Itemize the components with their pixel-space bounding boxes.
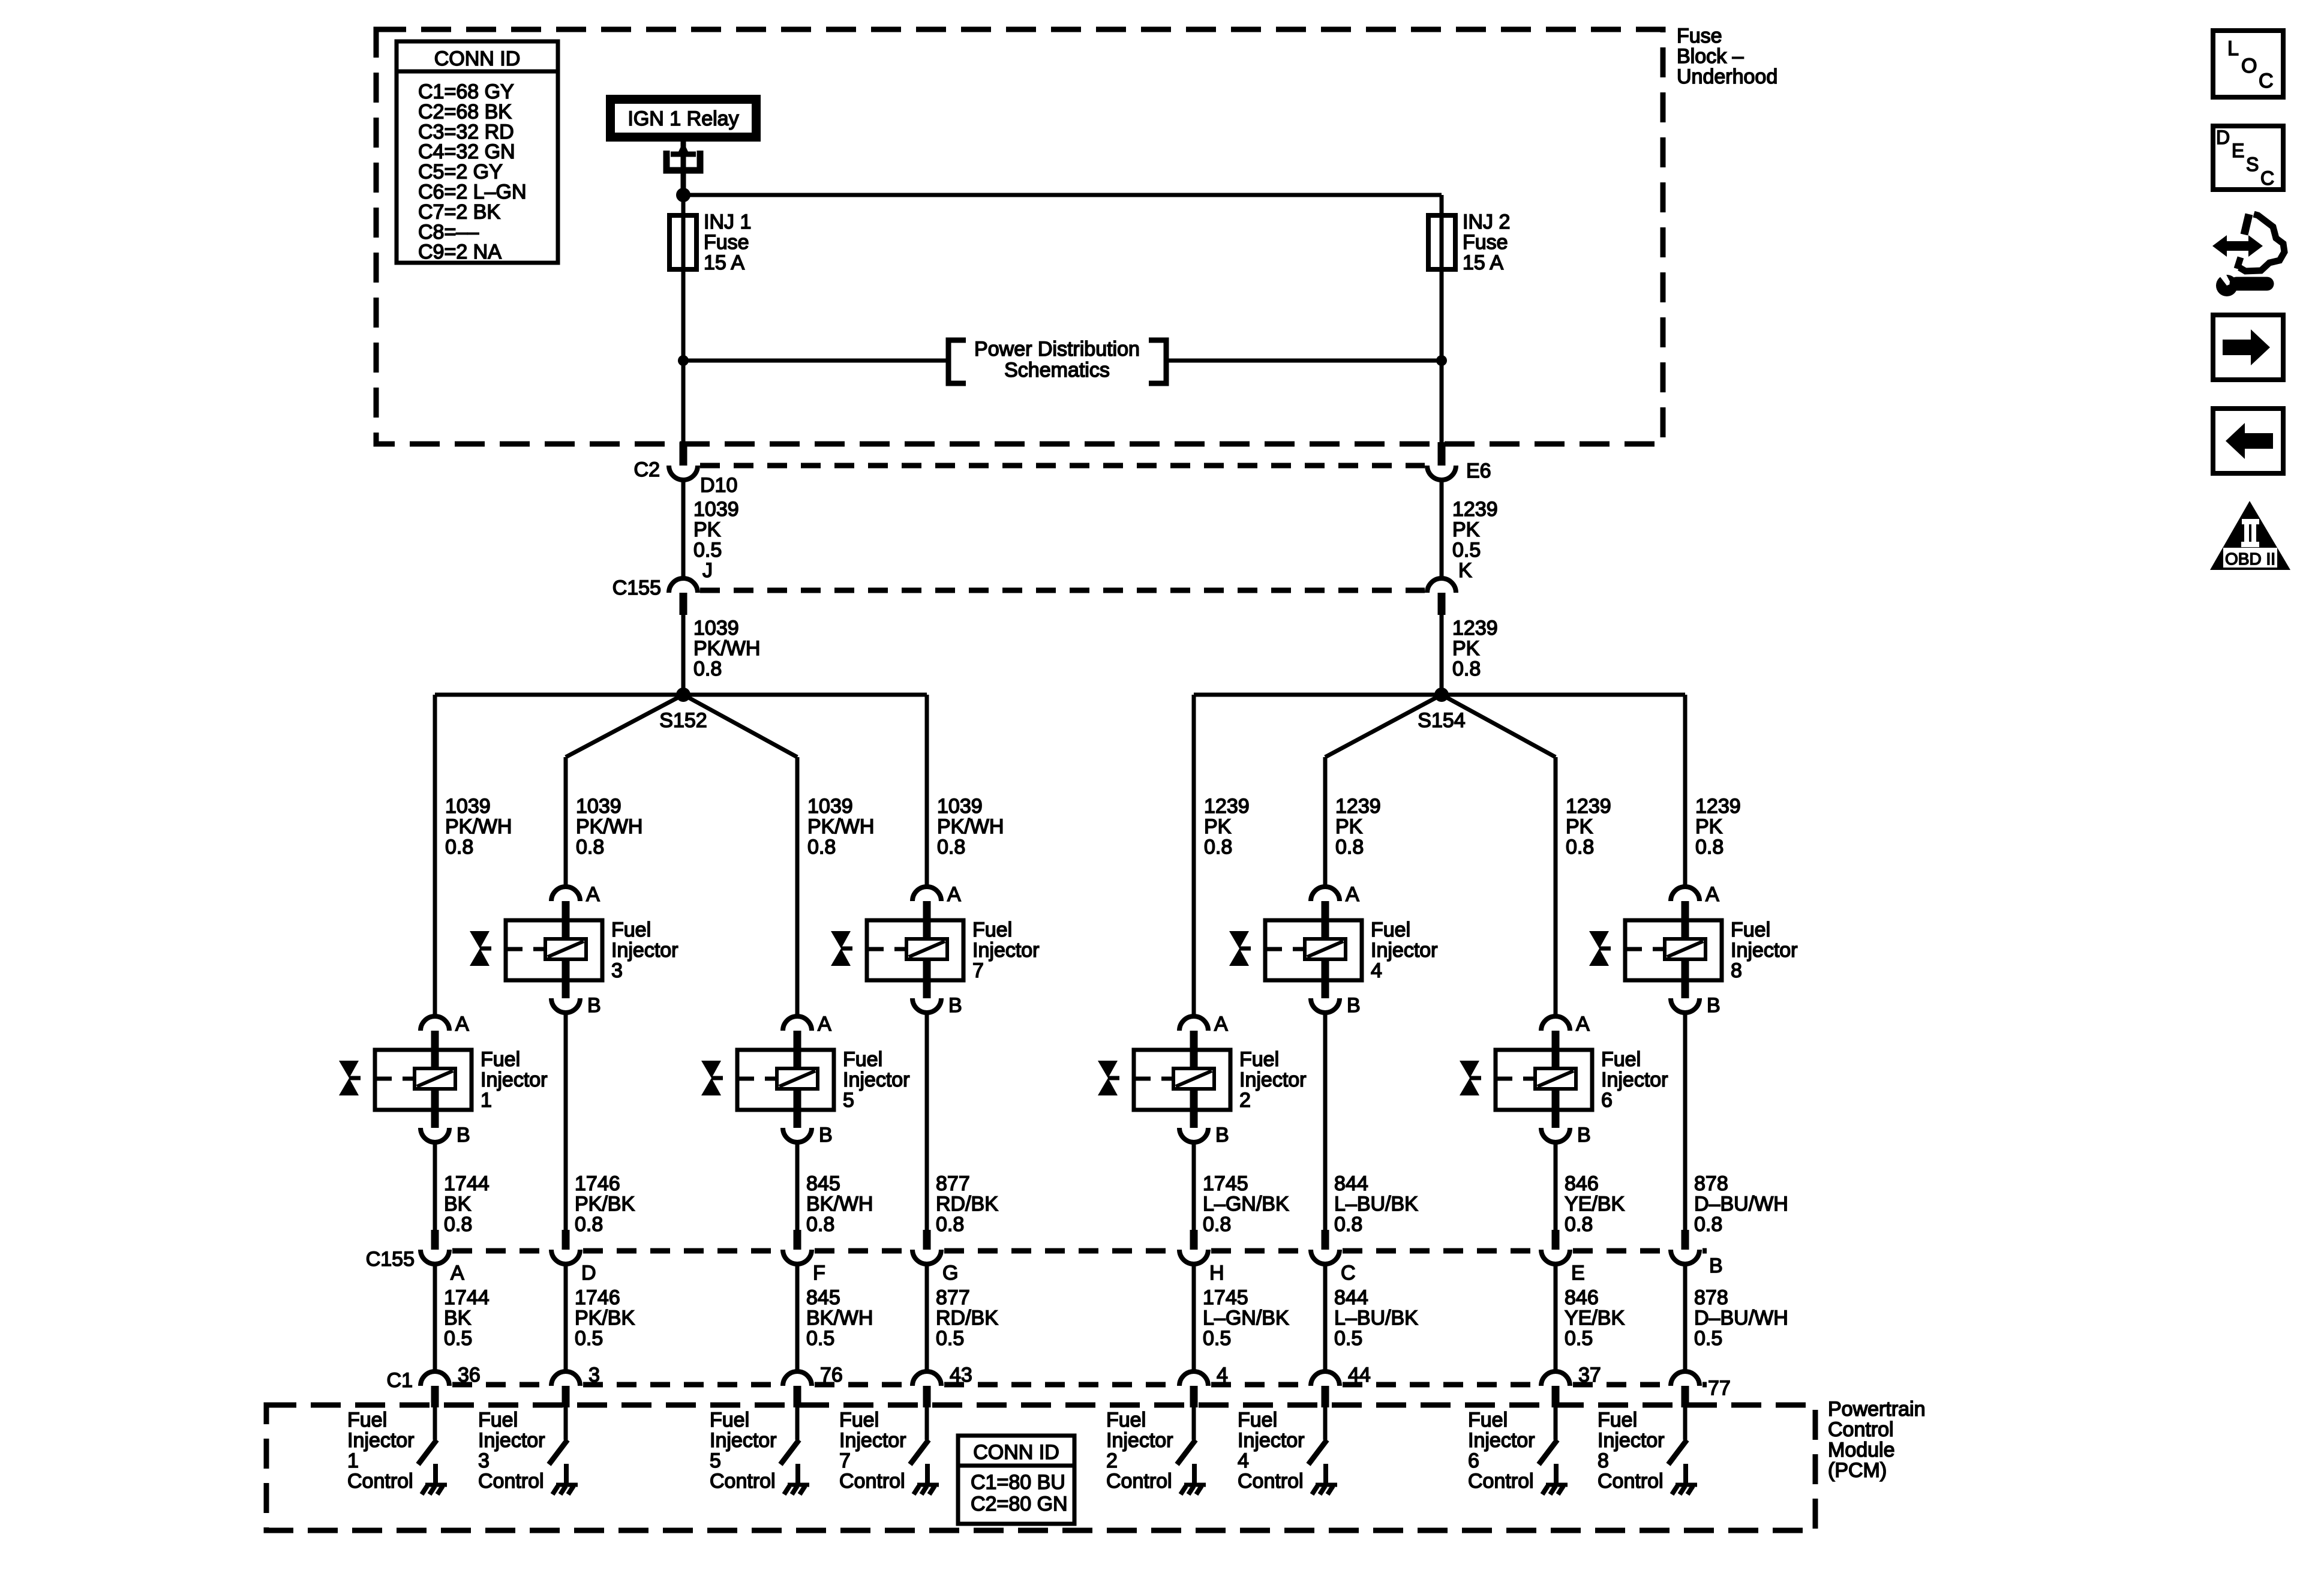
svg-text:D10: D10 [700,474,737,497]
svg-text:A: A [1706,883,1719,906]
svg-text:Control: Control [1106,1470,1172,1493]
wire: power distribution schematics tie line [683,359,1442,363]
svg-text:H: H [1209,1262,1224,1284]
svg-text:3: 3 [478,1449,490,1472]
connector C155 pin E [1541,1230,1585,1284]
PCM driver switch: fuel injector 6 control [1539,1407,1557,1464]
svg-text:C9=2 NA: C9=2 NA [418,241,502,263]
svg-text:Fuse: Fuse [1677,25,1722,47]
fuel injector 2 [1098,1013,1307,1146]
svg-text:BK: BK [444,1307,472,1329]
svg-text:A: A [586,883,600,906]
svg-text:Control: Control [1828,1418,1894,1441]
svg-text:1: 1 [347,1449,359,1472]
svg-text:0.5: 0.5 [693,539,722,562]
svg-text:YE/BK: YE/BK [1565,1307,1625,1329]
wire 1039 PK 0.5 [683,480,739,578]
svg-text:RD/BK: RD/BK [936,1307,998,1329]
label pin J [702,559,713,582]
svg-text:A: A [1346,883,1359,906]
connector C155 pin H [1179,1230,1224,1284]
svg-text:Fuel: Fuel [1468,1409,1508,1431]
label: Fuel Injector 2 Control [1106,1409,1173,1493]
svg-text:B: B [1347,994,1361,1017]
svg-text:Fuel: Fuel [1106,1409,1146,1431]
wire 1746 PK/BK 0.8 from injector 3 pin B [566,1011,635,1236]
svg-text:C7=2 BK: C7=2 BK [418,200,500,223]
svg-text:Injector: Injector [1468,1429,1535,1452]
svg-text:1239: 1239 [1566,795,1611,818]
icon: forward arrow box [2213,315,2283,380]
svg-text:0.5: 0.5 [1694,1327,1722,1350]
svg-text:B: B [1709,1254,1723,1277]
svg-text:C5=2 GY: C5=2 GY [418,161,503,184]
dashed connector line C1 (PCM) [452,1382,1707,1388]
PCM driver switch: fuel injector 1 control [418,1407,437,1464]
wire 1239 PK 0.8 to injector 4 pin A [1325,757,1381,888]
svg-text:INJ 1: INJ 1 [704,211,751,233]
svg-text:C: C [2260,167,2274,189]
relay IGN 1 [606,95,761,142]
svg-text:B: B [1707,994,1721,1017]
svg-text:Control: Control [839,1470,905,1493]
svg-text:PK: PK [1204,815,1232,838]
svg-text:C1=80 BU: C1=80 BU [971,1471,1065,1494]
PCM driver switch: fuel injector 2 control [1177,1407,1196,1464]
svg-text:Injector: Injector [1238,1429,1305,1452]
svg-text:0.8: 0.8 [444,1213,472,1236]
svg-text:D: D [2216,127,2230,148]
connector symbol below IGN 1 relay [666,142,700,170]
svg-text:Fuel: Fuel [481,1048,520,1071]
connector C155 pin G [912,1230,958,1284]
svg-text:F: F [813,1262,825,1284]
svg-text:877: 877 [936,1172,970,1195]
label C155 (bottom) [366,1248,415,1271]
svg-text:2: 2 [1106,1449,1118,1472]
svg-text:0.8: 0.8 [575,1213,603,1236]
svg-text:E6: E6 [1466,460,1491,482]
svg-text:Fuel: Fuel [1238,1409,1277,1431]
svg-text:1039: 1039 [693,617,739,640]
svg-text:6: 6 [1601,1089,1613,1112]
label: Fuel Injector 1 Control [347,1409,415,1493]
label: Fuel Injector 3 Control [478,1409,545,1493]
label E6 [1466,460,1491,482]
svg-text:OBD II: OBD II [2225,550,2275,568]
dashed connector line C155 top [700,588,1425,593]
fuel injector 1 [339,1013,548,1146]
svg-text:1039: 1039 [445,795,491,818]
svg-text:0.8: 0.8 [806,1213,834,1236]
svg-text:3: 3 [611,959,623,982]
CONN ID table (fuse block) [397,41,558,263]
PCM driver switch: fuel injector 3 control [549,1407,568,1464]
svg-text:1745: 1745 [1203,1172,1248,1195]
svg-text:Injector: Injector [481,1068,548,1091]
connector C155 pin A [421,1230,464,1284]
svg-text:Control: Control [1598,1470,1664,1493]
svg-text:B: B [1577,1124,1591,1146]
svg-text:1744: 1744 [444,1286,490,1309]
svg-text:0.8: 0.8 [1452,658,1481,680]
svg-text:0.8: 0.8 [1203,1213,1231,1236]
svg-text:Control: Control [710,1470,776,1493]
svg-text:15 A: 15 A [704,251,744,274]
svg-text:L–BU/BK: L–BU/BK [1334,1307,1418,1329]
svg-text:Injector: Injector [478,1429,545,1452]
svg-text:C4=32 GN: C4=32 GN [418,140,515,163]
svg-text:B: B [1215,1124,1229,1146]
connector C1 pin 44 [1311,1364,1371,1407]
svg-text:S154: S154 [1418,709,1465,732]
svg-text:Block –: Block – [1677,45,1744,68]
svg-text:S152: S152 [659,709,707,732]
PCM driver switch: fuel injector 4 control [1308,1407,1327,1464]
svg-text:845: 845 [806,1286,840,1309]
svg-text:0.5: 0.5 [1203,1327,1231,1350]
fuel injector 4 [1229,883,1438,1017]
svg-text:0.8: 0.8 [1335,836,1364,858]
svg-text:1239: 1239 [1695,795,1741,818]
svg-text:0.8: 0.8 [576,836,604,858]
svg-text:BK: BK [444,1193,472,1215]
connector C155 pin F [783,1230,825,1284]
svg-text:Fuse: Fuse [1463,231,1508,254]
svg-text:PK/BK: PK/BK [575,1307,635,1329]
connector C1 pin 76 [783,1364,843,1407]
label pin D10 [700,474,737,497]
svg-text:844: 844 [1334,1172,1368,1195]
svg-text:C8=––: C8=–– [418,221,479,244]
svg-text:36: 36 [458,1364,481,1386]
svg-text:4: 4 [1238,1449,1249,1472]
svg-text:43: 43 [950,1364,972,1386]
svg-text:C2: C2 [634,458,660,481]
ground (PCM internal, injector 2) [1181,1464,1206,1494]
svg-text:0.8: 0.8 [807,836,836,858]
wire 1039 PK/WH 0.8 to S152 [683,615,760,695]
svg-text:C6=2 L–GN: C6=2 L–GN [418,181,527,203]
svg-text:0.8: 0.8 [1694,1213,1722,1236]
label: Fuel Injector 5 Control [710,1409,777,1493]
svg-text:A: A [947,883,961,906]
svg-text:Injector: Injector [839,1429,906,1452]
svg-text:A: A [1214,1013,1228,1035]
junction node at IGN1 relay output [676,188,690,202]
connector C1 pin 37 [1541,1364,1601,1407]
svg-text:0.8: 0.8 [1695,836,1724,858]
svg-text:B: B [948,994,962,1017]
label: Powertrain Control Module (PCM) [1828,1398,1926,1482]
connector C155 pin K (right) [1427,578,1456,615]
fuel injector 3 [470,883,678,1017]
junction node: INJ2 fuse / power distribution [1436,355,1447,366]
svg-text:Injector: Injector [1106,1429,1173,1452]
svg-text:Injector: Injector [972,939,1040,962]
label: Fuel Injector 8 Control [1598,1409,1665,1493]
wire 1239 PK 0.8 to injector 2 pin A [1194,695,1250,1017]
svg-text:15 A: 15 A [1463,251,1503,274]
svg-text:PK: PK [1335,815,1363,838]
svg-text:4: 4 [1217,1364,1228,1386]
svg-text:1744: 1744 [444,1172,490,1195]
svg-text:PK: PK [1695,815,1723,838]
svg-text:Control: Control [1238,1470,1304,1493]
svg-text:0.8: 0.8 [1566,836,1594,858]
wire 1744 BK 0.8 from injector 1 pin B [435,1141,490,1236]
svg-text:846: 846 [1565,1172,1599,1195]
svg-text:1746: 1746 [575,1286,620,1309]
svg-text:PK/WH: PK/WH [445,815,512,838]
wire through INJ 2 fuse [1440,216,1444,442]
svg-text:C2=80 GN: C2=80 GN [971,1493,1068,1515]
svg-text:0.5: 0.5 [1334,1327,1362,1350]
svg-text:Fuel: Fuel [1239,1048,1279,1071]
svg-text:Control: Control [478,1470,544,1493]
fuel injector 6 [1460,1013,1668,1146]
svg-text:A: A [455,1013,469,1035]
svg-text:Fuel: Fuel [1598,1409,1637,1431]
svg-text:8: 8 [1598,1449,1609,1472]
svg-text:8: 8 [1731,959,1742,982]
svg-text:K: K [1458,559,1472,582]
ground (PCM internal, injector 8) [1672,1464,1697,1494]
wire 844 L–BU/BK 0.8 from injector 4 pin B [1325,1011,1418,1236]
svg-text:0.8: 0.8 [445,836,473,858]
icon: back arrow box [2213,409,2283,473]
svg-text:7: 7 [972,959,984,982]
svg-text:L–GN/BK: L–GN/BK [1203,1307,1289,1329]
wire 1745 L–GN/BK 0.5 to PCM [1194,1264,1289,1373]
svg-text:2: 2 [1239,1089,1251,1112]
svg-text:76: 76 [820,1364,843,1386]
wire 1039 PK/WH 0.8 to injector 1 pin A [435,695,512,1017]
wire 844 L–BU/BK 0.5 to PCM [1325,1264,1418,1373]
svg-text:Fuel: Fuel [843,1048,882,1071]
svg-text:0.5: 0.5 [936,1327,964,1350]
svg-text:A: A [818,1013,831,1035]
splice S154 [1194,688,1685,757]
svg-text:YE/BK: YE/BK [1565,1193,1625,1215]
wire: IGN 1 relay to INJ fuses [681,142,686,195]
svg-text:1239: 1239 [1452,498,1498,521]
svg-text:Schematics: Schematics [1004,359,1110,382]
svg-text:PK: PK [1566,815,1593,838]
junction node: INJ1 fuse / power distribution [678,355,689,366]
svg-text:Injector: Injector [1601,1068,1668,1091]
PCM driver switch: fuel injector 8 control [1668,1407,1687,1464]
svg-text:1239: 1239 [1204,795,1250,818]
wire 846 YE/BK 0.5 to PCM [1556,1264,1625,1373]
svg-text:RD/BK: RD/BK [936,1193,998,1215]
svg-text:S: S [2246,154,2259,175]
svg-text:PK: PK [693,518,721,541]
svg-text:1239: 1239 [1452,617,1498,640]
svg-text:Underhood: Underhood [1677,65,1777,88]
svg-text:845: 845 [806,1172,840,1195]
svg-text:844: 844 [1334,1286,1368,1309]
ground (PCM internal, injector 4) [1312,1464,1337,1494]
reference: Power Distribution Schematics [948,338,1166,383]
svg-text:A: A [1576,1013,1590,1035]
svg-text:Injector: Injector [843,1068,910,1091]
ground (PCM internal, injector 7) [914,1464,939,1494]
wire 846 YE/BK 0.8 from injector 6 pin B [1556,1141,1625,1236]
svg-text:Control: Control [347,1470,413,1493]
fuse INJ 1 15 A [669,211,751,274]
dashed connector line C2/E6 [700,463,1425,469]
svg-text:PK/WH: PK/WH [807,815,874,838]
svg-text:CONN ID: CONN ID [434,47,521,70]
svg-text:B: B [819,1124,833,1146]
svg-text:878: 878 [1694,1172,1728,1195]
svg-text:Injector: Injector [1239,1068,1307,1091]
connector C1 pin 36 [421,1364,481,1407]
svg-text:1039: 1039 [807,795,853,818]
wire 1039 PK/WH 0.8 to injector 7 pin A [927,695,1004,888]
svg-text:877: 877 [936,1286,970,1309]
label: Fuel Injector 7 Control [839,1409,906,1493]
svg-text:Fuel: Fuel [839,1409,879,1431]
wire 1239 PK 0.8 to S154 [1442,615,1498,695]
svg-text:BK/WH: BK/WH [806,1307,873,1329]
wire 1039 PK/WH 0.8 to injector 3 pin A [566,757,642,888]
svg-text:3: 3 [588,1364,600,1386]
svg-text:37: 37 [1578,1364,1601,1386]
svg-text:4: 4 [1371,959,1382,982]
label C1 [387,1369,413,1392]
ground (PCM internal, injector 6) [1542,1464,1568,1494]
icon: OBD II triangle [2210,501,2290,570]
svg-text:B: B [587,994,601,1017]
wire 1039 PK/WH 0.8 to injector 5 pin A [797,757,874,1017]
connector C155 pin J (left) [669,578,698,615]
wire 1745 L–GN/BK 0.8 from injector 2 pin B [1194,1141,1289,1236]
svg-text:0.8: 0.8 [937,836,965,858]
connector C2 pin D10 (left) [669,442,698,480]
svg-text:Injector: Injector [347,1429,415,1452]
svg-text:PK: PK [1452,637,1480,660]
svg-text:PK: PK [1452,518,1480,541]
label pin K [1458,559,1472,582]
svg-text:PK/WH: PK/WH [937,815,1004,838]
svg-text:878: 878 [1694,1286,1728,1309]
svg-text:1746: 1746 [575,1172,620,1195]
svg-text:0.8: 0.8 [1334,1213,1362,1236]
svg-text:C1=68 GY: C1=68 GY [418,80,514,103]
svg-text:0.5: 0.5 [575,1327,603,1350]
svg-text:6: 6 [1468,1449,1479,1472]
wire 1744 BK 0.5 to PCM [435,1264,490,1373]
svg-text:0.5: 0.5 [1452,539,1481,562]
icon: LOC box [2213,31,2283,97]
wire: top horizontal bus to INJ 2 fuse [683,195,1442,216]
svg-text:C2=68 BK: C2=68 BK [418,100,512,123]
label C155 [612,577,661,599]
svg-text:0.5: 0.5 [806,1327,834,1350]
svg-text:Injector: Injector [611,939,678,962]
svg-text:Fuel: Fuel [1601,1048,1641,1071]
svg-text:1039: 1039 [576,795,621,818]
icon: diagnostic arrows + car + wrench [2212,214,2284,296]
svg-text:1: 1 [481,1089,492,1112]
svg-text:B: B [457,1124,470,1146]
svg-text:J: J [702,559,713,582]
svg-text:Fuel: Fuel [611,918,651,941]
wire 1239 PK 0.8 to injector 6 pin A [1556,757,1611,1017]
connector C1 pin 77 [1671,1371,1731,1407]
svg-text:Control: Control [1468,1470,1534,1493]
svg-text:0.8: 0.8 [1204,836,1232,858]
svg-text:PK/WH: PK/WH [576,815,642,838]
svg-text:Injector: Injector [1598,1429,1665,1452]
wire 845 BK/WH 0.5 to PCM [797,1264,873,1373]
ground (PCM internal, injector 1) [422,1464,447,1494]
svg-text:1239: 1239 [1335,795,1381,818]
svg-text:IGN 1 Relay: IGN 1 Relay [627,107,738,130]
svg-text:Fuel: Fuel [347,1409,387,1431]
svg-text:Injector: Injector [1371,939,1438,962]
svg-text:D–BU/WH: D–BU/WH [1694,1307,1788,1329]
svg-text:L–BU/BK: L–BU/BK [1334,1193,1418,1215]
svg-text:C: C [1341,1262,1356,1284]
ground (PCM internal, injector 5) [784,1464,809,1494]
wire 877 RD/BK 0.8 from injector 7 pin B [927,1011,998,1236]
svg-text:Fuel: Fuel [478,1409,518,1431]
svg-text:C1: C1 [387,1369,413,1392]
svg-text:846: 846 [1565,1286,1599,1309]
svg-text:5: 5 [843,1089,854,1112]
fuel injector 7 [831,883,1040,1017]
PCM driver switch: fuel injector 7 control [910,1407,929,1464]
wire through INJ 1 fuse down to power distribution tap [681,195,686,442]
svg-text:BK/WH: BK/WH [806,1193,873,1215]
svg-text:1039: 1039 [693,498,739,521]
wire 1239 PK 0.5 [1442,480,1498,578]
svg-text:C3=32 RD: C3=32 RD [418,121,514,143]
ground (PCM internal, injector 3) [553,1464,578,1494]
PCM driver switch: fuel injector 5 control [780,1407,799,1464]
svg-text:PK/BK: PK/BK [575,1193,635,1215]
svg-text:Power Distribution: Power Distribution [974,338,1140,361]
svg-text:A: A [451,1262,464,1284]
label C2 [634,458,660,481]
CONN ID table (PCM) [958,1436,1074,1524]
svg-text:O: O [2241,55,2257,77]
svg-text:Fuel: Fuel [1731,918,1770,941]
svg-text:D–BU/WH: D–BU/WH [1694,1193,1788,1215]
label: Fuel Injector 6 Control [1468,1409,1535,1493]
svg-text:Injector: Injector [710,1429,777,1452]
connector C1 pin 43 [912,1364,972,1407]
svg-text:7: 7 [839,1449,851,1472]
connector C155 pin D [551,1230,596,1284]
svg-text:C: C [2259,70,2274,92]
svg-text:Fuse: Fuse [704,231,749,254]
icon: DESC box [2213,126,2283,190]
svg-text:CONN ID: CONN ID [973,1441,1059,1464]
svg-text:Module: Module [1828,1439,1895,1461]
wire 845 BK/WH 0.8 from injector 5 pin B [797,1141,873,1236]
wire 1239 PK 0.8 to injector 8 pin A [1685,695,1741,888]
svg-text:1039: 1039 [937,795,983,818]
wire 878 D–BU/WH 0.8 from injector 8 pin B [1685,1011,1788,1236]
svg-text:Fuel: Fuel [972,918,1012,941]
svg-text:L: L [2227,37,2239,60]
svg-text:L–GN/BK: L–GN/BK [1203,1193,1289,1215]
connector C1 pin 3 [551,1364,600,1407]
